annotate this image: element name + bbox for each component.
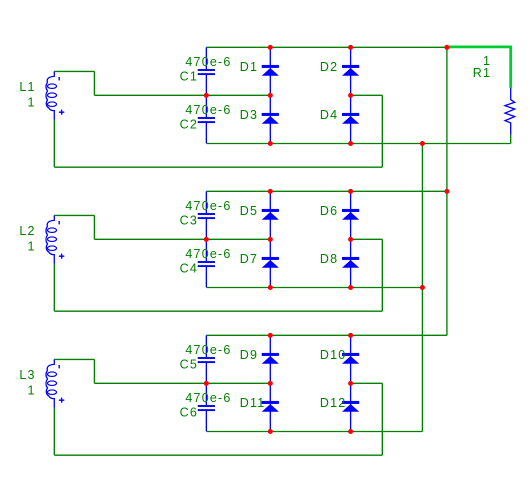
svg-text:D10: D10 <box>320 348 347 362</box>
svg-text:C2: C2 <box>180 118 198 132</box>
svg-text:D4: D4 <box>320 108 338 122</box>
svg-text:C5: C5 <box>180 358 198 372</box>
svg-text:L2: L2 <box>19 224 35 238</box>
svg-text:470e-6: 470e-6 <box>185 199 231 213</box>
svg-text:1: 1 <box>28 383 36 397</box>
svg-text:D5: D5 <box>240 204 258 218</box>
svg-text:R1: R1 <box>473 66 491 80</box>
svg-text:D9: D9 <box>240 348 258 362</box>
svg-text:C4: C4 <box>180 262 198 276</box>
svg-text:L1: L1 <box>19 80 35 94</box>
svg-text:C1: C1 <box>180 70 198 84</box>
svg-text:D3: D3 <box>240 108 258 122</box>
svg-text:D2: D2 <box>320 60 338 74</box>
svg-text:1: 1 <box>28 95 36 109</box>
svg-text:470e-6: 470e-6 <box>185 343 231 357</box>
svg-text:C6: C6 <box>180 406 198 420</box>
svg-text:470e-6: 470e-6 <box>185 103 231 117</box>
svg-text:D6: D6 <box>320 204 338 218</box>
svg-text:D1: D1 <box>240 60 258 74</box>
svg-text:D8: D8 <box>320 252 338 266</box>
svg-text:470e-6: 470e-6 <box>185 247 231 261</box>
svg-text:L3: L3 <box>19 368 35 382</box>
svg-text:D11: D11 <box>240 396 266 410</box>
svg-text:D7: D7 <box>240 252 258 266</box>
svg-text:470e-6: 470e-6 <box>185 391 231 405</box>
svg-text:D12: D12 <box>320 396 347 410</box>
svg-text:C3: C3 <box>180 214 198 228</box>
svg-text:1: 1 <box>28 239 36 253</box>
svg-text:470e-6: 470e-6 <box>185 55 231 69</box>
